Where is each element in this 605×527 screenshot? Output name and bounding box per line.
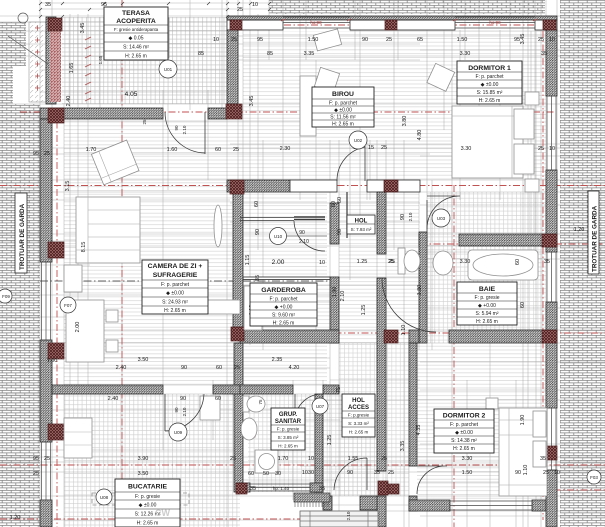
svg-text:10: 10 [252, 2, 258, 8]
svg-text:S: 7.93 m²: S: 7.93 m² [351, 227, 372, 232]
svg-text:F: p. gresie: F: p. gresie [277, 427, 300, 432]
svg-text:1.00: 1.00 [47, 358, 58, 364]
window openings (triple lines) [41, 17, 556, 510]
svg-text:60: 60 [254, 201, 260, 207]
svg-text:65: 65 [417, 37, 423, 43]
svg-text:25: 25 [142, 119, 147, 125]
DORMITOR 2 [434, 409, 494, 453]
svg-text:◆ ±0.00: ◆ ±0.00 [481, 82, 499, 88]
corridor door (hol->hol acces) [382, 278, 436, 332]
svg-text:60: 60 [337, 197, 343, 203]
svg-text:25: 25 [237, 7, 243, 13]
svg-text:3.80: 3.80 [402, 116, 408, 127]
extra red column entry [388, 484, 399, 494]
svg-text:3.50: 3.50 [138, 471, 149, 477]
washing machine [255, 450, 278, 473]
svg-text:H: 2.65 m: H: 2.65 m [125, 54, 147, 60]
dormitor2 bed [499, 408, 547, 496]
TROTUAR DE GARDA left [15, 193, 27, 273]
svg-text:BAIE: BAIE [479, 286, 496, 293]
svg-text:1.25: 1.25 [361, 305, 367, 316]
TERASA ACOPERITA [104, 7, 168, 60]
svg-text:1.90: 1.90 [520, 415, 526, 426]
red insulation strip terrace west wall [50, 24, 61, 102]
living->hol door [240, 218, 294, 221]
living->kitchen door [165, 394, 204, 431]
GRUP SANITAR [271, 408, 305, 450]
svg-text:H: 2.65 m: H: 2.65 m [137, 521, 159, 527]
svg-text:H: 2.65 m: H: 2.65 m [164, 308, 186, 314]
svg-text:1030: 1030 [302, 470, 314, 476]
svg-text:75: 75 [258, 399, 263, 405]
svg-text:U10: U10 [274, 234, 283, 239]
exterior comb strip [294, 493, 330, 507]
svg-text:◆ +0.00: ◆ +0.00 [478, 303, 496, 309]
svg-text:1.65: 1.65 [69, 63, 75, 74]
svg-text:1.60: 1.60 [167, 147, 178, 153]
grup sanitar sink [241, 418, 257, 440]
svg-text:10: 10 [213, 37, 219, 43]
svg-text:35: 35 [319, 486, 325, 492]
sidewalk brick band right [560, 0, 605, 527]
svg-text:60: 60 [215, 147, 221, 153]
svg-text:3.45: 3.45 [520, 34, 526, 45]
svg-text:1.65: 1.65 [98, 55, 103, 64]
grup sanitar north wall [240, 385, 293, 394]
svg-text:4.80: 4.80 [417, 130, 423, 141]
svg-text:1.20: 1.20 [10, 515, 21, 521]
svg-text:90: 90 [174, 125, 179, 131]
svg-text:85: 85 [198, 51, 204, 57]
svg-text:3.30: 3.30 [461, 146, 472, 152]
grup sanitar toilet [243, 396, 249, 412]
east wall [546, 30, 557, 96]
svg-text:DORMITOR 1: DORMITOR 1 [468, 65, 511, 72]
svg-text:15: 15 [368, 145, 374, 151]
dormitor2 south wall [409, 500, 450, 511]
svg-text:3.30: 3.30 [460, 51, 471, 57]
svg-text:25: 25 [44, 151, 50, 157]
svg-text:1.10: 1.10 [401, 325, 407, 336]
svg-text:◆ +0.00: ◆ +0.00 [275, 305, 293, 311]
black dash-dot living axis [40, 280, 330, 282]
svg-text:CW: CW [155, 508, 170, 518]
living top wall right of door [208, 108, 227, 119]
svg-text:S: 3.33 m²: S: 3.33 m² [348, 421, 369, 426]
svg-text:25: 25 [538, 146, 544, 152]
svg-text:HOL: HOL [352, 398, 365, 404]
svg-text:60: 60 [216, 365, 222, 371]
svg-text:1.70: 1.70 [278, 456, 289, 462]
svg-text:25: 25 [543, 470, 549, 476]
svg-text:90: 90 [180, 396, 186, 402]
svg-text:S: 14.38 m²: S: 14.38 m² [451, 438, 477, 444]
svg-text:3.30: 3.30 [460, 259, 471, 265]
svg-text:2.00: 2.00 [75, 322, 81, 333]
coffee table oval [214, 205, 222, 247]
svg-text:60: 60 [215, 396, 221, 402]
dining table + chairs [64, 265, 82, 292]
baie tub [468, 250, 538, 280]
svg-text:◆ 0.05: ◆ 0.05 [129, 36, 144, 42]
svg-text:ACOPERITA: ACOPERITA [116, 18, 156, 25]
svg-text:BIROU: BIROU [332, 91, 354, 98]
HOL [347, 215, 375, 234]
hol acces east wall [377, 192, 386, 254]
svg-text:H: 2.65 m: H: 2.65 m [479, 98, 501, 104]
svg-text:90: 90 [400, 214, 406, 220]
svg-text:4.05: 4.05 [125, 91, 138, 98]
hol west wall / garderoba east [330, 203, 339, 244]
svg-text:2.40: 2.40 [116, 365, 127, 371]
parquet floors [64, 121, 327, 385]
dormitor1 bed [452, 106, 523, 178]
svg-text:85: 85 [267, 51, 273, 57]
svg-text:90: 90 [362, 37, 368, 43]
north wall east segment [535, 20, 557, 30]
svg-text:2.10: 2.10 [346, 511, 351, 520]
svg-text:90: 90 [515, 470, 521, 476]
living east wall / garderoba west wall [233, 192, 243, 330]
svg-text:◆ ±0.00: ◆ ±0.00 [139, 503, 157, 509]
svg-text:60: 60 [520, 302, 526, 308]
svg-text:F: p. parchet: F: p. parchet [329, 101, 358, 107]
svg-text:90: 90 [174, 407, 179, 413]
CAMERA DE ZI + SUFRAGERIE [142, 260, 208, 314]
birou south wall [227, 180, 290, 192]
svg-text:90: 90 [255, 229, 261, 235]
svg-text:2.10: 2.10 [340, 291, 346, 302]
terrace east wall [227, 30, 238, 104]
svg-text:25: 25 [388, 470, 394, 476]
svg-text:1.90: 1.90 [332, 287, 338, 298]
svg-text:25: 25 [381, 145, 387, 151]
svg-text:1.25: 1.25 [327, 435, 333, 446]
svg-text:1.50: 1.50 [308, 37, 319, 43]
grup sanitar door [295, 394, 322, 420]
svg-text:F: gresie antiderapanta: F: gresie antiderapanta [114, 27, 159, 32]
svg-text:2.10: 2.10 [182, 125, 187, 134]
svg-text:30: 30 [275, 471, 281, 477]
svg-text:3.35: 3.35 [304, 51, 315, 57]
svg-text:35: 35 [544, 259, 550, 265]
north wall mid segment [350, 20, 455, 30]
svg-text:TERASA: TERASA [122, 10, 150, 17]
hol acces south wall [323, 496, 332, 510]
svg-text:25: 25 [233, 147, 239, 153]
svg-text:F: p. parchet: F: p. parchet [450, 422, 479, 428]
leader line top-left [8, 36, 48, 64]
kitchen counter [64, 418, 92, 458]
svg-text:35: 35 [45, 2, 51, 8]
kitchen fridge [200, 396, 220, 420]
svg-text:S: 14.46 m²: S: 14.46 m² [123, 45, 149, 51]
svg-text:3.50: 3.50 [138, 357, 149, 363]
svg-text:F: p. gresie: F: p. gresie [135, 494, 160, 500]
svg-text:2.30: 2.30 [280, 146, 291, 152]
svg-text:1.25: 1.25 [357, 259, 368, 265]
svg-text:S: 9.60 m²: S: 9.60 m² [272, 313, 295, 319]
living corner sofa [76, 197, 140, 263]
svg-text:2.40: 2.40 [66, 96, 72, 107]
svg-text:10: 10 [319, 260, 325, 266]
svg-text:35: 35 [374, 470, 380, 476]
svg-text:U09: U09 [174, 430, 183, 435]
sidewalk brick band top [269, 0, 545, 14]
svg-text:3.45: 3.45 [249, 96, 255, 107]
svg-text:S: 15.85 m²: S: 15.85 m² [477, 90, 503, 96]
svg-text:F: p. gresie: F: p. gresie [474, 295, 499, 301]
svg-text:F07: F07 [64, 303, 72, 308]
grup sanitar east wall [315, 394, 323, 492]
svg-text:U08: U08 [100, 495, 109, 500]
svg-text:25: 25 [388, 259, 394, 265]
svg-text:10: 10 [549, 37, 555, 43]
svg-text:1.10: 1.10 [523, 465, 529, 476]
dormitor1 door [426, 200, 428, 234]
entry steps [300, 511, 378, 527]
svg-text:ho:90: ho:90 [310, 20, 322, 25]
svg-text:10: 10 [549, 146, 555, 152]
svg-text:◆ ±0.00: ◆ ±0.00 [166, 291, 184, 297]
svg-text:85: 85 [255, 275, 261, 281]
baie sink [433, 251, 453, 275]
BUCATARIE [115, 479, 180, 527]
BIROU [312, 87, 374, 128]
svg-text:SUFRAGERIE: SUFRAGERIE [153, 272, 198, 279]
svg-text:90: 90 [347, 470, 353, 476]
svg-text:F: p. parchet: F: p. parchet [161, 282, 190, 288]
baie west wall [419, 232, 427, 343]
svg-text:F09: F09 [2, 294, 10, 299]
svg-text:4.20: 4.20 [289, 365, 300, 371]
north wall west segment [227, 20, 283, 30]
baie toilet [398, 248, 405, 274]
svg-text:H: 2.65 m: H: 2.65 m [453, 446, 475, 452]
svg-text:25: 25 [538, 37, 544, 43]
baie door [427, 196, 460, 229]
birou desk + chair [300, 76, 316, 136]
grup sanitar south wall [240, 483, 250, 492]
svg-text:50: 50 [263, 471, 269, 477]
living top wall left of door [40, 108, 163, 119]
svg-text:10: 10 [308, 456, 314, 462]
svg-text:GARDEROBA: GARDEROBA [261, 287, 306, 294]
svg-text:1.15: 1.15 [245, 255, 251, 266]
GARDEROBA [250, 283, 317, 327]
planted strip hatch top-left [29, 22, 46, 102]
svg-text:4.35: 4.35 [416, 425, 422, 436]
BAIE [457, 282, 517, 325]
svg-text:ACCES: ACCES [348, 405, 369, 411]
terrace tiles [62, 17, 227, 104]
svg-text:10: 10 [554, 470, 560, 476]
svg-text:2.10: 2.10 [182, 407, 187, 416]
svg-text:◆ ±0.00: ◆ ±0.00 [455, 430, 473, 436]
dimension ticks top [39, 2, 271, 18]
svg-text:F: p.gresie: F: p.gresie [348, 413, 370, 418]
svg-text:GRUP.: GRUP. [279, 412, 298, 418]
entry door [334, 458, 367, 490]
svg-text:25: 25 [33, 471, 39, 477]
svg-text:95: 95 [33, 151, 39, 157]
svg-text:2.10: 2.10 [408, 212, 413, 221]
svg-text:S: 3.85 m²: S: 3.85 m² [278, 435, 299, 440]
garderoba north wall [243, 277, 330, 280]
birou door [337, 146, 365, 181]
svg-text:H: 2.65 m: H: 2.65 m [349, 430, 369, 435]
svg-text:2.35: 2.35 [272, 357, 283, 363]
svg-text:S: 5.94 m²: S: 5.94 m² [475, 311, 498, 317]
svg-text:S: 24.93 m²: S: 24.93 m² [162, 300, 188, 306]
birou door frame [346, 192, 348, 238]
svg-text:1.20: 1.20 [574, 227, 585, 233]
svg-text:25: 25 [386, 37, 392, 43]
armchair rotated [91, 140, 139, 185]
svg-text:F: p. parchet: F: p. parchet [475, 74, 504, 80]
svg-text:90: 90 [337, 229, 343, 235]
garderoba wardrobe [244, 286, 262, 330]
west wall main [40, 119, 52, 262]
svg-text:U02: U02 [354, 138, 363, 143]
svg-text:2.40: 2.40 [108, 396, 119, 402]
vertical (rotated) dimension texts [65, 23, 529, 521]
svg-text:1.80: 1.80 [417, 285, 423, 296]
svg-text:35: 35 [540, 456, 546, 462]
svg-text:95: 95 [257, 37, 263, 43]
north wall render strip [227, 16, 557, 20]
svg-text:95: 95 [33, 456, 39, 462]
svg-text:hp: 1.40: hp: 1.40 [273, 486, 290, 491]
svg-text:75: 75 [336, 387, 342, 393]
dormitor2 north wall [409, 330, 419, 343]
svg-text:HOL: HOL [355, 219, 368, 225]
svg-text:90: 90 [181, 365, 187, 371]
svg-text:ho:90: ho:90 [489, 20, 501, 25]
dormitor1 south wall / baie north [459, 234, 557, 246]
terrace->living door [165, 112, 205, 154]
svg-text:◆ ±0.00: ◆ ±0.00 [334, 108, 352, 114]
svg-text:3.35: 3.35 [400, 441, 406, 452]
svg-text:25: 25 [230, 456, 236, 462]
svg-text:2.00: 2.00 [272, 259, 285, 266]
TROTUAR DE GARDA right [588, 191, 599, 274]
svg-text:CAMERA DE ZI +: CAMERA DE ZI + [148, 263, 203, 270]
west wall (terrace part) [46, 17, 56, 104]
svg-text:35: 35 [250, 486, 256, 492]
svg-text:U03: U03 [437, 216, 446, 221]
svg-text:25: 25 [234, 365, 240, 371]
DORMITOR 1 [457, 61, 522, 104]
kitchen north wall [52, 385, 163, 394]
svg-text:H: 2.65 m: H: 2.65 m [273, 321, 295, 327]
svg-text:1.50: 1.50 [457, 37, 468, 43]
svg-text:F03: F03 [590, 475, 598, 480]
svg-text:3.30: 3.30 [462, 456, 473, 462]
svg-text:TROTUAR DE GARDA: TROTUAR DE GARDA [19, 203, 26, 270]
svg-text:SANITAR: SANITAR [275, 419, 302, 425]
svg-text:1.50: 1.50 [462, 470, 473, 476]
svg-text:H: 2.65 m: H: 2.65 m [476, 319, 498, 325]
svg-text:1.70: 1.70 [86, 147, 97, 153]
svg-text:U07: U07 [316, 404, 325, 409]
svg-text:3.90: 3.90 [138, 456, 149, 462]
red dimension ticks column x=88 [85, 19, 537, 101]
svg-text:2.10: 2.10 [299, 239, 309, 245]
svg-text:8.15: 8.15 [81, 242, 87, 253]
svg-text:60: 60 [248, 471, 254, 477]
svg-text:3.45: 3.45 [80, 23, 86, 34]
HOL ACCES [342, 394, 375, 437]
terrace bench [160, 18, 169, 58]
svg-text:U01: U01 [164, 67, 173, 72]
svg-text:3.15: 3.15 [65, 181, 71, 192]
svg-text:F: p. parchet: F: p. parchet [269, 297, 298, 303]
svg-text:1.55: 1.55 [348, 456, 359, 462]
svg-text:35: 35 [541, 51, 547, 57]
svg-text:25: 25 [231, 37, 237, 43]
dormitor1 chair [427, 63, 455, 91]
svg-text:DORMITOR 2: DORMITOR 2 [443, 413, 486, 420]
sidewalk brick band left [0, 22, 13, 104]
svg-text:25: 25 [381, 456, 387, 462]
svg-text:H: 2.65 m: H: 2.65 m [332, 122, 354, 128]
dormitor2 west wall [409, 343, 417, 466]
svg-text:60: 60 [515, 259, 521, 265]
svg-text:H: 2.65 m: H: 2.65 m [278, 444, 298, 449]
svg-text:25: 25 [44, 456, 50, 462]
svg-text:90: 90 [299, 230, 305, 236]
TV board [180, 300, 240, 314]
kitchen sink [92, 493, 189, 505]
svg-text:S: 11.56 m²: S: 11.56 m² [330, 115, 356, 121]
garderoba south wall [240, 330, 339, 343]
svg-text:BUCATARIE: BUCATARIE [128, 484, 167, 491]
svg-text:TROTUAR DE GARDA: TROTUAR DE GARDA [592, 205, 599, 272]
dormitor2 door [417, 466, 447, 494]
